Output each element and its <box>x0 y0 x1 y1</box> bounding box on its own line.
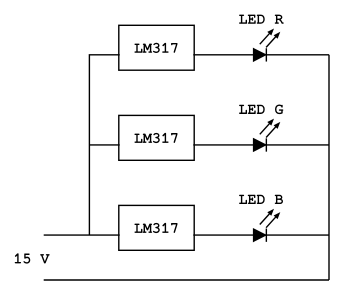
LED D1 light arrow 1 <box>260 33 270 45</box>
wire: LM317 U2 output to LED G <box>193 144 329 146</box>
label U3 value LM317 <box>135 223 177 232</box>
LED D1 cathode bar <box>265 48 267 61</box>
regulator U2 LM317 body <box>119 115 194 160</box>
LED D3 cathode bar <box>265 229 267 242</box>
LED D2 anode triangle <box>253 139 266 152</box>
label U1 value LM317 <box>135 43 177 52</box>
LED D3 light arrow 2 <box>266 216 276 228</box>
LED D2 light arrow 2 <box>266 126 276 138</box>
LED D3 anode triangle <box>253 229 266 242</box>
LED D1 light arrow 2 <box>266 36 276 48</box>
LED D3 light arrow 1 <box>260 213 270 225</box>
wire: LM317 U3 output to LED B <box>193 234 329 236</box>
label supply voltage 15 V <box>15 254 49 263</box>
label LED G <box>239 105 282 114</box>
wire: LM317 U1 output to LED R <box>193 54 329 56</box>
wire: bottom return rail to 15V negative <box>44 279 329 281</box>
wire: left vertical bus feeding LM317 inputs <box>89 55 119 235</box>
LED D2 cathode bar <box>265 138 267 151</box>
wire: 15V positive rail to LM317 U3 input <box>44 234 120 236</box>
label LED R <box>239 15 283 23</box>
wire: branch to LM317 U2 input <box>89 144 119 146</box>
LED D2 light arrow 1 <box>260 123 270 135</box>
regulator U1 LM317 body <box>119 25 194 70</box>
LED D1 anode triangle <box>253 48 266 61</box>
label LED B <box>239 195 282 203</box>
label U2 value LM317 <box>135 133 177 142</box>
wire: right vertical return bus <box>328 55 330 280</box>
regulator U3 LM317 body <box>119 205 194 250</box>
